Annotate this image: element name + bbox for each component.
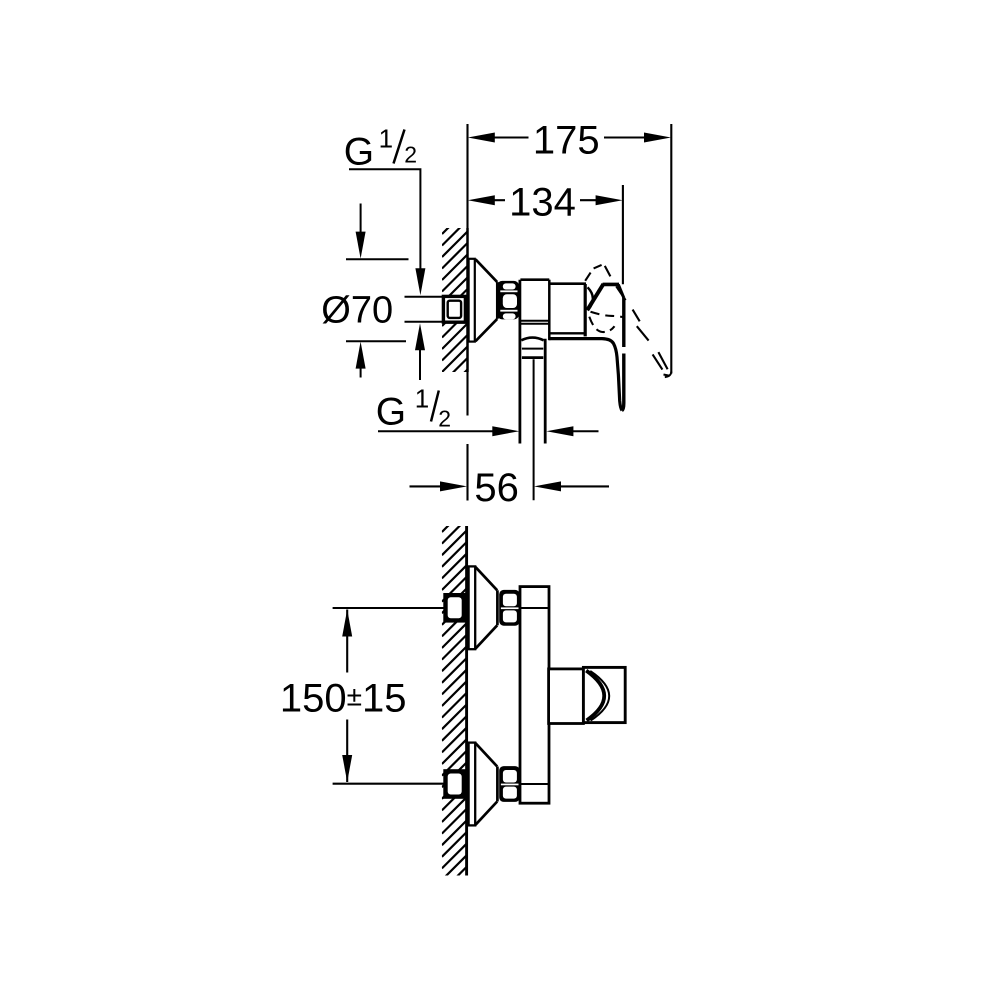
- svg-text:150±15: 150±15: [280, 676, 407, 720]
- svg-text:G: G: [376, 391, 406, 434]
- svg-text:2: 2: [404, 141, 417, 167]
- svg-text:56: 56: [474, 466, 519, 510]
- svg-text:134: 134: [509, 180, 576, 224]
- svg-text:1: 1: [415, 384, 429, 414]
- svg-text:G: G: [344, 130, 374, 173]
- svg-text:175: 175: [533, 118, 600, 162]
- svg-text:2: 2: [438, 405, 451, 431]
- svg-text:1: 1: [379, 123, 393, 153]
- svg-text:Ø70: Ø70: [321, 290, 393, 332]
